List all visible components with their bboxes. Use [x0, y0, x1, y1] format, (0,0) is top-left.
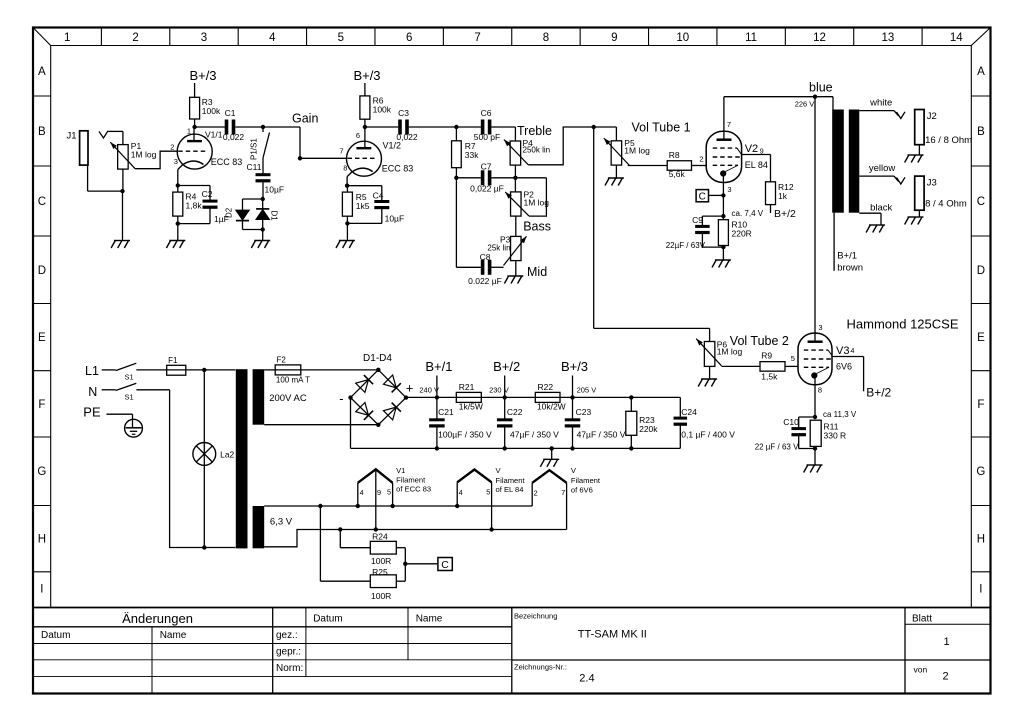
svg-text:33k: 33k [465, 150, 479, 160]
svg-text:0,022: 0,022 [223, 132, 245, 142]
svg-text:A: A [38, 66, 46, 78]
svg-text:F: F [977, 399, 984, 411]
svg-text:C: C [38, 196, 46, 208]
svg-text:6: 6 [356, 131, 360, 140]
svg-text:6V6: 6V6 [836, 362, 852, 372]
svg-text:1M log: 1M log [717, 347, 743, 357]
svg-text:2: 2 [942, 671, 948, 683]
svg-text:7: 7 [339, 147, 343, 156]
svg-text:220k: 220k [639, 424, 658, 434]
svg-text:C10: C10 [783, 417, 799, 427]
svg-text:R25: R25 [372, 567, 388, 577]
svg-text:Hammond 125CSE: Hammond 125CSE [847, 317, 959, 332]
svg-text:V3: V3 [836, 345, 849, 357]
svg-text:10µF: 10µF [385, 214, 405, 224]
svg-text:A: A [977, 66, 985, 78]
svg-text:C9: C9 [692, 215, 703, 225]
svg-text:Vol Tube 1: Vol Tube 1 [632, 121, 691, 135]
svg-text:9: 9 [377, 488, 381, 497]
svg-text:B+/1: B+/1 [837, 251, 857, 262]
svg-text:8 / 4 Ohm: 8 / 4 Ohm [925, 199, 967, 210]
svg-text:200V AC: 200V AC [269, 393, 307, 404]
svg-text:B: B [977, 126, 985, 138]
svg-text:B+/3: B+/3 [353, 68, 380, 83]
svg-text:D: D [38, 265, 46, 277]
svg-text:B+/1: B+/1 [425, 359, 452, 374]
svg-text:I: I [979, 584, 982, 596]
svg-text:5,6k: 5,6k [669, 169, 686, 179]
svg-text:1: 1 [943, 636, 949, 648]
svg-text:500 pF: 500 pF [474, 132, 500, 142]
svg-text:230 V: 230 V [489, 386, 509, 395]
svg-text:6: 6 [406, 32, 412, 44]
svg-text:Name: Name [160, 630, 187, 641]
svg-text:Treble: Treble [517, 124, 552, 138]
svg-text:B+/3: B+/3 [561, 359, 588, 374]
svg-text:2.4: 2.4 [579, 673, 594, 685]
svg-text:2: 2 [534, 489, 538, 498]
svg-text:C7: C7 [481, 162, 492, 172]
svg-text:gepr.:: gepr.: [276, 647, 301, 658]
svg-text:P1/S1: P1/S1 [250, 138, 259, 160]
svg-text:1M log: 1M log [624, 146, 650, 156]
svg-text:V2: V2 [745, 143, 758, 155]
svg-text:B+/2: B+/2 [774, 208, 796, 220]
svg-text:R22: R22 [538, 382, 554, 392]
svg-text:1µF: 1µF [214, 214, 229, 224]
svg-text:1,8k: 1,8k [186, 201, 203, 211]
svg-text:205 V: 205 V [577, 386, 597, 395]
svg-text:5: 5 [791, 354, 795, 363]
svg-text:V1: V1 [396, 466, 405, 475]
svg-text:100k: 100k [373, 105, 392, 115]
svg-text:7: 7 [474, 32, 480, 44]
svg-text:1,5k: 1,5k [761, 372, 778, 382]
svg-text:4: 4 [851, 348, 855, 355]
svg-text:Filament: Filament [571, 476, 601, 485]
svg-text:Norm:: Norm: [276, 663, 303, 674]
svg-text:1M log: 1M log [524, 198, 550, 208]
svg-text:C22: C22 [507, 407, 523, 417]
svg-text:C4: C4 [373, 191, 384, 201]
svg-text:+: + [406, 381, 414, 396]
svg-text:E: E [977, 332, 985, 344]
svg-text:240 V: 240 V [419, 386, 439, 395]
svg-text:D: D [977, 265, 985, 277]
svg-text:47µF / 350 V: 47µF / 350 V [510, 429, 559, 439]
svg-text:V1/1: V1/1 [205, 130, 223, 140]
svg-text:0,022 µF: 0,022 µF [470, 184, 504, 194]
svg-text:-: - [339, 391, 343, 406]
svg-text:1: 1 [187, 127, 191, 136]
svg-text:2: 2 [699, 155, 703, 164]
svg-text:5: 5 [338, 32, 344, 44]
svg-text:R21: R21 [459, 382, 475, 392]
svg-text:11: 11 [745, 32, 757, 44]
svg-text:8: 8 [343, 164, 347, 173]
svg-text:D1-D4: D1-D4 [363, 353, 392, 364]
svg-text:6,3 V: 6,3 V [270, 517, 293, 528]
svg-text:C2: C2 [202, 189, 213, 199]
svg-text:0.022 µF: 0.022 µF [468, 276, 502, 286]
svg-text:Zeichnungs-Nr.:: Zeichnungs-Nr.: [514, 663, 567, 672]
svg-text:H: H [38, 534, 46, 546]
svg-text:gez.:: gez.: [276, 630, 298, 641]
svg-text:J3: J3 [927, 178, 937, 189]
svg-text:La2: La2 [220, 450, 234, 460]
svg-text:C24: C24 [681, 407, 697, 417]
svg-text:22 µF / 63 V: 22 µF / 63 V [755, 443, 799, 452]
svg-text:Bezeichnung: Bezeichnung [514, 612, 557, 621]
svg-text:Vol Tube 2: Vol Tube 2 [730, 334, 789, 348]
svg-text:100R: 100R [371, 591, 391, 601]
svg-text:3: 3 [727, 185, 731, 194]
svg-text:C23: C23 [576, 407, 592, 417]
svg-text:3: 3 [201, 32, 207, 44]
svg-text:Filament: Filament [496, 476, 526, 485]
svg-text:B+/2: B+/2 [493, 359, 520, 374]
svg-text:C3: C3 [398, 108, 409, 118]
svg-text:1M log: 1M log [131, 150, 157, 160]
svg-text:C1: C1 [225, 108, 236, 118]
svg-text:7: 7 [561, 488, 565, 497]
svg-text:F1: F1 [168, 356, 178, 365]
svg-text:4: 4 [269, 32, 276, 44]
svg-text:R24: R24 [372, 532, 388, 542]
svg-text:9: 9 [611, 32, 617, 44]
svg-text:black: black [870, 203, 892, 214]
svg-text:of ECC 83: of ECC 83 [396, 484, 431, 493]
svg-text:0,1 µF / 400 V: 0,1 µF / 400 V [681, 430, 735, 440]
svg-text:brown: brown [837, 263, 863, 274]
svg-text:C11: C11 [247, 162, 262, 172]
svg-text:5: 5 [387, 488, 391, 497]
svg-text:yellow: yellow [869, 163, 896, 174]
svg-text:blue: blue [809, 81, 833, 95]
svg-text:330 R: 330 R [824, 431, 847, 441]
svg-text:1k: 1k [778, 191, 788, 201]
svg-text:12: 12 [813, 32, 826, 44]
svg-text:8: 8 [818, 386, 822, 395]
svg-text:J2: J2 [927, 111, 937, 122]
svg-text:N: N [88, 385, 97, 399]
svg-text:1k/5W: 1k/5W [459, 402, 483, 412]
svg-text:ca. 7,4 V: ca. 7,4 V [732, 209, 764, 218]
svg-text:I: I [40, 584, 43, 596]
svg-text:220R: 220R [732, 229, 752, 239]
svg-text:4: 4 [459, 488, 463, 497]
svg-text:226 V: 226 V [795, 100, 815, 109]
svg-text:G: G [976, 466, 985, 478]
svg-text:Gain: Gain [292, 112, 318, 126]
svg-text:2: 2 [170, 143, 174, 152]
svg-text:G: G [37, 466, 46, 478]
svg-text:10: 10 [676, 32, 689, 44]
svg-text:R8: R8 [669, 150, 680, 160]
svg-text:C: C [977, 196, 985, 208]
svg-text:V1/2: V1/2 [383, 141, 402, 151]
svg-text:ca 11,3 V: ca 11,3 V [823, 410, 857, 419]
svg-text:25k lin: 25k lin [487, 244, 510, 253]
svg-text:EL 84: EL 84 [745, 160, 768, 170]
svg-text:B: B [38, 126, 46, 138]
svg-text:of EL 84: of EL 84 [496, 485, 524, 494]
svg-text:C: C [441, 559, 449, 571]
svg-text:Bass: Bass [523, 220, 551, 234]
svg-text:16 / 8 Ohm: 16 / 8 Ohm [925, 135, 972, 146]
svg-text:14: 14 [950, 32, 963, 44]
svg-text:C6: C6 [481, 108, 492, 118]
svg-text:von: von [914, 665, 928, 675]
svg-text:ECC 83: ECC 83 [211, 157, 243, 167]
svg-text:250k lin: 250k lin [523, 146, 551, 155]
svg-text:Blatt: Blatt [912, 614, 932, 625]
svg-text:Änderungen: Änderungen [122, 611, 193, 626]
svg-text:H: H [977, 534, 985, 546]
svg-text:C21: C21 [438, 407, 454, 417]
svg-text:2: 2 [132, 32, 138, 44]
svg-text:Filament: Filament [396, 476, 426, 485]
svg-text:C: C [699, 192, 706, 203]
svg-text:10k/2W: 10k/2W [537, 402, 566, 412]
svg-text:3: 3 [174, 157, 178, 166]
svg-text:R9: R9 [761, 351, 772, 361]
svg-text:D1: D1 [269, 211, 278, 222]
svg-text:100R: 100R [371, 556, 391, 566]
svg-text:TT-SAM MK II: TT-SAM MK II [578, 629, 647, 641]
svg-text:white: white [869, 98, 892, 109]
svg-text:E: E [38, 332, 46, 344]
svg-text:1: 1 [64, 32, 70, 44]
svg-text:PE: PE [83, 404, 101, 419]
svg-text:Name: Name [416, 614, 443, 625]
svg-text:B+/3: B+/3 [189, 68, 216, 83]
svg-text:10µF: 10µF [265, 185, 285, 195]
svg-text:S1: S1 [125, 393, 134, 402]
svg-text:4: 4 [360, 488, 364, 497]
svg-text:of 6V6: of 6V6 [571, 486, 593, 495]
svg-text:B+/2: B+/2 [866, 386, 891, 400]
svg-text:100µF / 350 V: 100µF / 350 V [438, 429, 492, 439]
svg-text:Mid: Mid [527, 265, 547, 279]
svg-text:22µF / 63V: 22µF / 63V [666, 241, 706, 250]
svg-text:100 mA T: 100 mA T [276, 376, 310, 385]
svg-text:S1: S1 [125, 373, 134, 382]
svg-text:3: 3 [818, 323, 822, 332]
svg-text:13: 13 [882, 32, 895, 44]
svg-text:8: 8 [543, 32, 549, 44]
svg-text:100k: 100k [202, 106, 221, 116]
svg-text:1k5: 1k5 [356, 201, 370, 211]
svg-text:Datum: Datum [313, 614, 342, 625]
svg-text:5: 5 [486, 488, 490, 497]
svg-text:F: F [38, 399, 45, 411]
svg-text:C8: C8 [480, 252, 491, 262]
svg-text:47µF / 350 V: 47µF / 350 V [577, 429, 626, 439]
svg-text:ECC 83: ECC 83 [382, 164, 414, 174]
svg-text:J1: J1 [66, 131, 76, 142]
svg-text:Datum: Datum [41, 630, 70, 641]
svg-text:L1: L1 [85, 364, 99, 378]
svg-text:F2: F2 [277, 356, 287, 365]
svg-text:7: 7 [727, 120, 731, 129]
